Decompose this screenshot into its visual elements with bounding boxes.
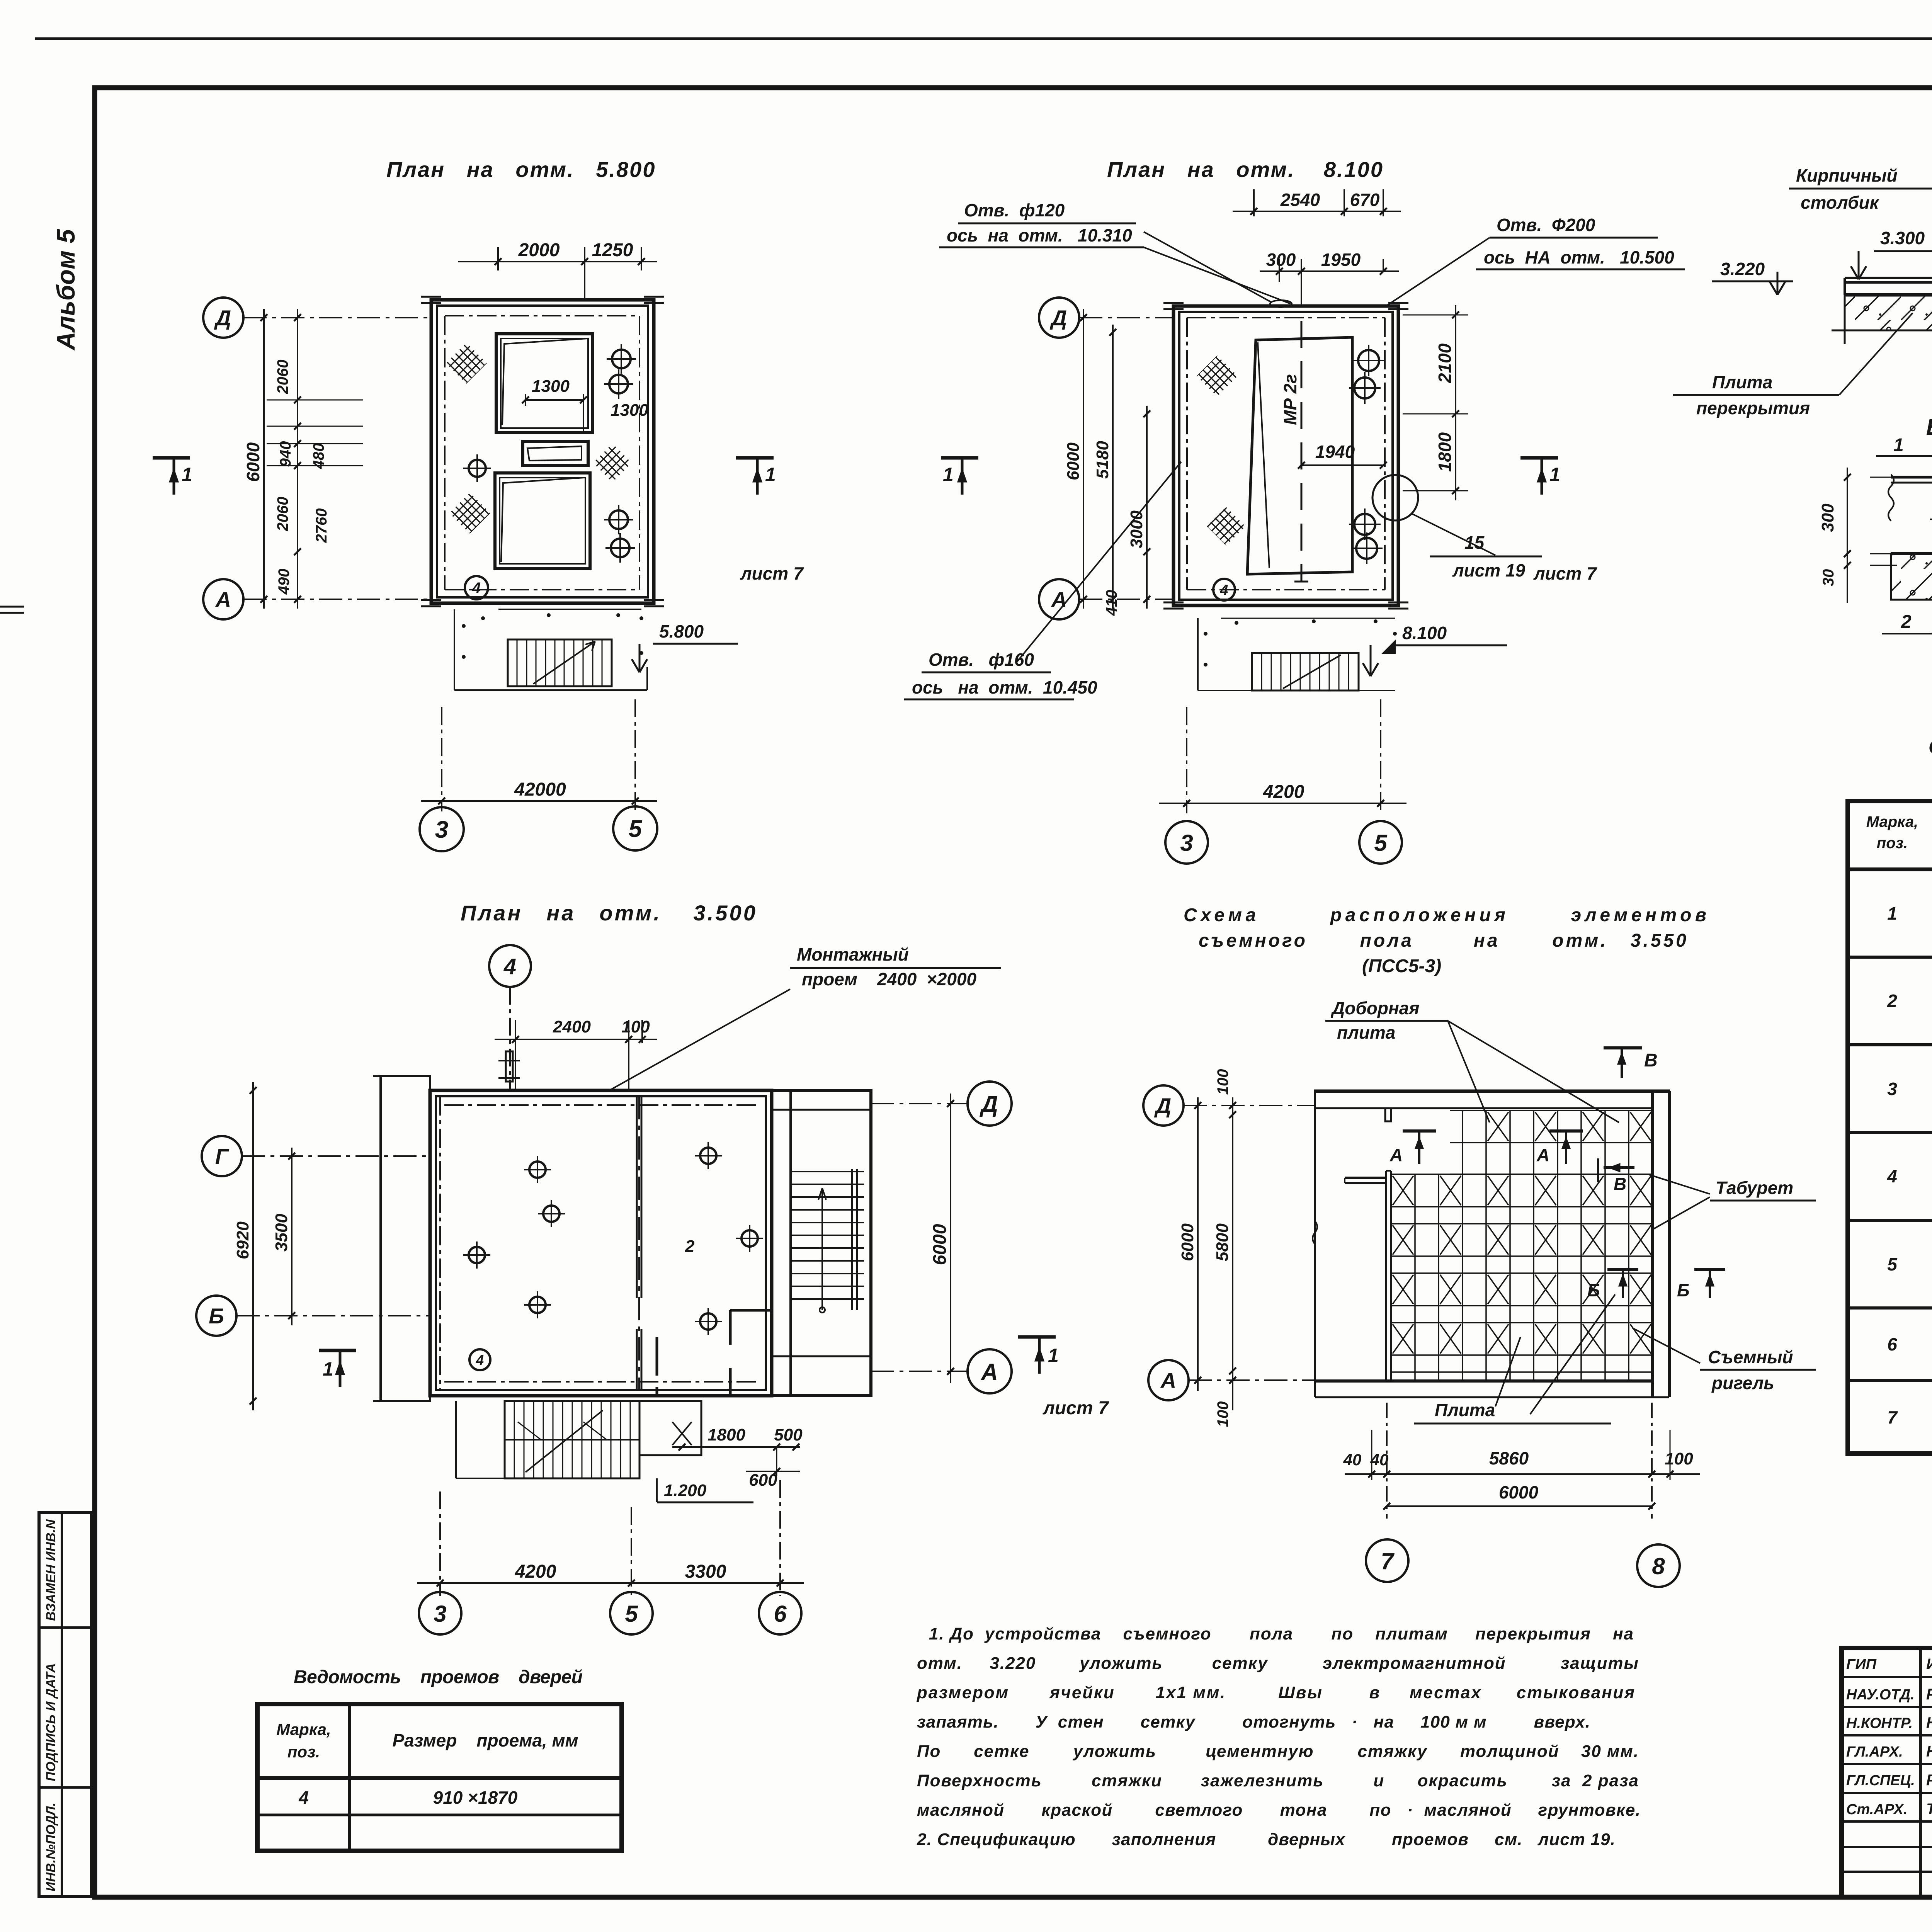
svg-text:3: 3	[1887, 1079, 1897, 1099]
plan 3500 left porch	[381, 1076, 430, 1401]
svg-text:1: 1	[1893, 435, 1904, 456]
svg-text:Б: Б	[1587, 1280, 1600, 1300]
svg-text:6920: 6920	[233, 1221, 252, 1259]
svg-text:ГЛ.СПЕЦ.: ГЛ.СПЕЦ.	[1846, 1772, 1915, 1789]
leader otv f120	[1144, 232, 1271, 302]
svg-text:1: 1	[182, 464, 192, 485]
svg-text:лист 7: лист 7	[740, 563, 804, 583]
slab BB	[1891, 554, 1932, 600]
schema right wall	[1651, 1091, 1654, 1397]
svg-text:ось на отм. 10.310: ось на отм. 10.310	[947, 225, 1132, 245]
svg-text:1. До устройства съемного: 1. До устройства съемного пола по плитам…	[929, 1624, 1633, 1643]
svg-text:6000: 6000	[1499, 1482, 1539, 1502]
schema grid	[1390, 1174, 1392, 1381]
axis bubble 5 plan5800	[613, 806, 657, 850]
svg-text:6000: 6000	[243, 442, 263, 482]
svg-text:6000: 6000	[1178, 1223, 1197, 1261]
svg-text:5.800: 5.800	[659, 621, 704, 641]
svg-text:2: 2	[1887, 991, 1897, 1011]
plan 5.800 outer wall	[431, 300, 654, 603]
plan 3500 right annex	[772, 1090, 871, 1396]
svg-text:ГИП: ГИП	[1846, 1656, 1877, 1673]
schema break mark	[1313, 1221, 1317, 1244]
svg-text:Табурет: Табурет	[1716, 1178, 1793, 1198]
dim 2400/100 plan3500	[515, 1020, 516, 1090]
svg-text:500: 500	[774, 1425, 803, 1444]
detail circle 15	[1372, 475, 1418, 520]
svg-text:Кирпичный: Кирпичный	[1796, 165, 1898, 185]
svg-text:2400: 2400	[553, 1017, 591, 1036]
svg-text:РАШЕВСКИЙ: РАШЕВСКИЙ	[1926, 1770, 1932, 1789]
svg-text:Д: Д	[979, 1091, 998, 1117]
svg-text:1800: 1800	[707, 1425, 745, 1444]
plan 5.800 axis dash-dot lines	[445, 315, 639, 316]
svg-text:3: 3	[434, 1601, 446, 1627]
axis bubble 5 plan3500	[610, 1592, 653, 1634]
svg-text:5860: 5860	[1489, 1448, 1529, 1468]
svg-text:Спецификация к схем: Спецификация к схеме расположения	[1929, 736, 1932, 758]
plan 8100 axis dashdot	[1187, 317, 1385, 318]
svg-text:7: 7	[1381, 1548, 1395, 1574]
svg-text:410: 410	[1103, 590, 1120, 616]
svg-text:А: А	[1389, 1145, 1403, 1165]
svg-text:670: 670	[1350, 190, 1380, 210]
svg-text:100: 100	[1214, 1069, 1231, 1095]
axis bubble 3 plan8100	[1165, 821, 1208, 864]
svg-text:1.200: 1.200	[664, 1481, 707, 1500]
svg-text:40: 40	[1343, 1451, 1362, 1469]
schema top pier	[1385, 1108, 1391, 1121]
svg-text:6: 6	[1887, 1334, 1897, 1354]
svg-text:План на отм. 3.500: План на отм. 3.500	[461, 901, 755, 925]
svg-text:ось на отм. 10.450: ось на отм. 10.450	[912, 677, 1097, 697]
fold marks left edge	[0, 606, 24, 608]
svg-text:Поверхность стяжки: Поверхность стяжки зажелезнить и окрасит…	[917, 1771, 1638, 1790]
section marker 1 right of plan5800	[736, 456, 774, 460]
svg-text:Б: Б	[1677, 1280, 1690, 1300]
vent symbols plan 5.800	[612, 350, 631, 368]
svg-text:1: 1	[765, 464, 776, 485]
svg-text:4200: 4200	[515, 1561, 556, 1582]
svg-text:Доборная: Доборная	[1330, 998, 1419, 1018]
svg-text:1950: 1950	[1321, 250, 1361, 270]
svg-text:План на отм. 5.800: План на отм. 5.800	[386, 157, 656, 182]
section marker A schema left	[1403, 1129, 1436, 1133]
plan3500 axis dashdot	[444, 1104, 757, 1106]
svg-text:План на отм. 8.100: План на отм. 8.100	[1107, 157, 1384, 182]
vertical dim 6000 plan5800	[263, 309, 265, 609]
schema X plates	[1393, 1176, 1413, 1205]
axis bubble 4 top plan3500	[489, 945, 531, 987]
svg-text:480: 480	[310, 443, 327, 469]
svg-text:ИВАНОВА: ИВАНОВА	[1926, 1656, 1932, 1673]
svg-text:Ведомость проемов дверей: Ведомость проемов дверей	[294, 1667, 583, 1687]
svg-text:1300: 1300	[532, 377, 570, 396]
section marker 1 left of plan5800	[153, 456, 190, 460]
svg-text:размером ячейки 1x: размером ячейки 1x1 мм. Швы в местах сты…	[917, 1683, 1634, 1702]
axis bubble 4 in plan 5800	[465, 576, 488, 599]
svg-text:1250: 1250	[592, 240, 633, 260]
svg-text:4: 4	[503, 954, 516, 979]
schema left dims	[1197, 1097, 1199, 1391]
plan 3500 post symbols	[529, 1162, 546, 1178]
svg-text:Д: Д	[1154, 1094, 1171, 1118]
svg-text:лист 7: лист 7	[1043, 1398, 1109, 1418]
svg-text:8: 8	[1652, 1553, 1665, 1579]
crane opening MP2g	[1247, 337, 1352, 574]
axis bubble 5 plan8100	[1359, 821, 1402, 864]
svg-text:1: 1	[1048, 1345, 1059, 1366]
svg-text:В: В	[1644, 1050, 1658, 1071]
svg-text:4: 4	[1219, 582, 1228, 599]
svg-text:3: 3	[1180, 830, 1193, 856]
svg-text:ГЛ.АРХ.: ГЛ.АРХ.	[1846, 1744, 1903, 1760]
equipment upper rect	[496, 334, 593, 433]
svg-text:А: А	[980, 1359, 998, 1385]
svg-text:2000: 2000	[518, 240, 560, 260]
stair below plan 5800	[454, 609, 455, 690]
schema axis A line	[1189, 1379, 1314, 1381]
vertical dim chain plan5800	[297, 309, 298, 609]
svg-text:перекрытия: перекрытия	[1696, 398, 1810, 418]
svg-text:масляной краской: масляной краской светлого тона по · масл…	[917, 1801, 1640, 1820]
svg-text:4: 4	[1887, 1166, 1897, 1186]
svg-text:ВЗАМЕН ИНВ.N: ВЗАМЕН ИНВ.N	[44, 1519, 58, 1621]
svg-text:5: 5	[629, 816, 643, 842]
svg-text:600: 600	[749, 1471, 777, 1490]
svg-text:Б-Б: Б-Б	[1926, 415, 1932, 440]
svg-text:4: 4	[476, 1352, 484, 1368]
schema axis bubbles	[1143, 1085, 1184, 1126]
left dims 6920 3500	[252, 1082, 254, 1410]
section marker right of plan8100	[1520, 456, 1558, 460]
svg-text:РЫБКИНА: РЫБКИНА	[1926, 1686, 1932, 1703]
axis bubbles plan3500 right	[968, 1082, 1012, 1126]
title block frame	[1842, 1648, 1932, 1897]
axis bubble 7 schema	[1366, 1539, 1408, 1582]
dim 2540/670 top plan 8100	[1253, 189, 1255, 216]
dim 1300 inner	[526, 399, 583, 401]
leader otv f160	[1016, 462, 1181, 663]
left dim chains plan8100	[1083, 309, 1084, 609]
svg-text:НОРМАНН: НОРМАНН	[1926, 1743, 1932, 1760]
pier detail plan3500	[506, 1051, 513, 1082]
schema bottom wall	[1315, 1379, 1653, 1383]
svg-text:Плита: Плита	[1712, 372, 1772, 392]
svg-text:Марка,: Марка,	[276, 1720, 331, 1738]
svg-text:100: 100	[1214, 1401, 1231, 1427]
axis lines to plan 5800	[243, 317, 431, 318]
axis bubble 8 schema	[1637, 1544, 1680, 1587]
svg-text:940: 940	[277, 441, 294, 467]
svg-text:2760: 2760	[313, 509, 330, 543]
svg-text:1: 1	[323, 1358, 333, 1380]
svg-text:8.100: 8.100	[1402, 623, 1447, 643]
svg-text:(ПСС5-3): (ПСС5-3)	[1362, 956, 1441, 976]
schema top wall	[1314, 1090, 1670, 1093]
svg-text:Б: Б	[209, 1304, 224, 1328]
svg-text:3.220: 3.220	[1720, 259, 1765, 279]
axis bubble D plan8100	[1039, 298, 1079, 338]
svg-text:Отв. Ф200: Отв. Ф200	[1497, 215, 1595, 235]
svg-text:Д: Д	[1050, 306, 1067, 330]
svg-text:2. Спецификацию заполнен: 2. Спецификацию заполнения дверных проем…	[917, 1830, 1615, 1849]
section mark V top	[1604, 1046, 1642, 1049]
svg-text:300: 300	[1266, 250, 1296, 270]
svg-text:300: 300	[1818, 503, 1837, 532]
svg-text:2: 2	[1901, 612, 1912, 632]
dim 4200 plan8100	[1186, 707, 1187, 813]
hatch squares plan 8100	[1197, 355, 1238, 396]
section marker V schema inner	[1597, 1158, 1599, 1182]
svg-text:910 ×1870: 910 ×1870	[433, 1787, 518, 1808]
right dims 2100 1800	[1403, 315, 1468, 316]
svg-text:6000: 6000	[930, 1224, 950, 1265]
slab bottom ext	[1832, 330, 1845, 332]
svg-text:Ст.АРХ.: Ст.АРХ.	[1846, 1801, 1908, 1818]
svg-text:5: 5	[1887, 1254, 1898, 1274]
svg-text:ПОДПИСЬ И ДАТА: ПОДПИСЬ И ДАТА	[44, 1663, 58, 1781]
axis bubble 4 in plan8100	[1213, 579, 1235, 600]
plan 5.800 top dimension 2000/1250	[497, 247, 499, 270]
axis bubble 4 small plan3500	[469, 1349, 490, 1370]
svg-text:3500: 3500	[272, 1214, 291, 1252]
svg-text:Альбом 5: Альбом 5	[51, 229, 80, 351]
dim 42000 bottom plan 5800	[441, 707, 442, 811]
svg-text:Марка,: Марка,	[1866, 813, 1918, 830]
tambour below annex	[639, 1401, 701, 1455]
small duct rect	[523, 441, 588, 466]
svg-text:лист 7: лист 7	[1533, 563, 1597, 583]
svg-text:15: 15	[1464, 532, 1485, 553]
svg-text:1: 1	[943, 464, 954, 485]
svg-text:3: 3	[435, 816, 448, 843]
svg-text:5: 5	[625, 1601, 638, 1627]
svg-text:5800: 5800	[1213, 1223, 1232, 1261]
signature columns	[1919, 1648, 1922, 1897]
frame top double line	[95, 86, 1932, 89]
svg-text:5: 5	[1374, 830, 1388, 856]
axis bubble 3 plan3500	[419, 1592, 461, 1634]
annex stair treads	[791, 1171, 864, 1172]
schema bottom dims	[1386, 1403, 1388, 1519]
svg-text:А: А	[1160, 1368, 1176, 1393]
svg-text:НАУ.ОТД.: НАУ.ОТД.	[1846, 1687, 1915, 1703]
dim 4200 3300 plan3500	[439, 1492, 441, 1596]
svg-text:Отв. ф120: Отв. ф120	[964, 200, 1065, 220]
plan 8100 corner ticks	[1163, 302, 1184, 304]
svg-text:1: 1	[1549, 464, 1560, 485]
leader otv f200	[1387, 238, 1490, 305]
svg-text:столбик: столбик	[1801, 192, 1880, 213]
axis bubble A plan8100	[1039, 579, 1079, 619]
svg-text:Н.КОНТР.: Н.КОНТР.	[1846, 1715, 1913, 1731]
svg-text:1940: 1940	[1315, 442, 1355, 462]
axis bubble 3 plan5800	[420, 807, 464, 851]
svg-text:2540: 2540	[1280, 190, 1320, 210]
svg-text:30: 30	[1820, 569, 1837, 587]
svg-text:2: 2	[685, 1237, 695, 1256]
svg-text:2100: 2100	[1435, 343, 1455, 383]
plan 3500 outer walls	[430, 1090, 772, 1396]
svg-text:3300: 3300	[685, 1561, 726, 1582]
svg-text:6000: 6000	[1064, 442, 1083, 480]
svg-text:ТУСОВА: ТУСОВА	[1926, 1801, 1932, 1818]
svg-text:4200: 4200	[1263, 782, 1304, 802]
leader montazhny	[609, 989, 790, 1090]
axis bubble A plan5800	[203, 579, 243, 619]
section marker 1 plan3500 left	[319, 1349, 356, 1352]
svg-text:ось НА отм. 10.500: ось НА отм. 10.500	[1484, 247, 1674, 267]
svg-text:Д: Д	[214, 306, 231, 330]
schema left boundary	[1314, 1091, 1316, 1397]
center dashed line plan8100	[1301, 321, 1303, 582]
dim 300/1950 plan8100	[1279, 259, 1280, 282]
schema axis D line	[1184, 1105, 1314, 1106]
svg-text:Монтажный: Монтажный	[797, 944, 909, 964]
svg-text:7: 7	[1887, 1407, 1898, 1427]
axis bubble D plan5800	[203, 298, 243, 338]
svg-text:100: 100	[621, 1017, 650, 1036]
svg-text:проем 2400 ×2000: проем 2400 ×2000	[802, 969, 977, 989]
svg-text:2060: 2060	[274, 360, 291, 395]
stair below plan8100	[1197, 618, 1199, 690]
svg-text:490: 490	[276, 569, 293, 595]
svg-text:ИНВ.№ПОДЛ.: ИНВ.№ПОДЛ.	[44, 1803, 58, 1891]
plan 5.800 corner ticks	[421, 296, 441, 298]
svg-text:Г: Г	[215, 1144, 230, 1168]
svg-text:В: В	[1614, 1174, 1626, 1194]
schema partition	[1385, 1171, 1387, 1381]
signature rows	[1842, 1676, 1932, 1678]
svg-text:ригель: ригель	[1711, 1373, 1774, 1393]
leaders dobornaya	[1448, 1021, 1490, 1122]
svg-text:100: 100	[1665, 1449, 1693, 1468]
svg-text:40: 40	[1370, 1451, 1389, 1469]
equipment lower rect	[495, 473, 590, 568]
svg-text:2060: 2060	[274, 497, 291, 532]
svg-text:Съемный: Съемный	[1708, 1347, 1793, 1367]
section marker 1 plan3500 right	[1018, 1335, 1056, 1339]
section marker A schema right	[1549, 1129, 1583, 1133]
bottom dims plan3500	[672, 1446, 800, 1448]
hatch squares plan 5.800	[446, 343, 487, 384]
slab band section A-A	[1845, 295, 1932, 330]
bottom stair plan3500	[455, 1401, 457, 1478]
svg-text:запаять. У стен с: запаять. У стен сетку отогнуть · на 100 …	[917, 1713, 1590, 1731]
svg-text:4: 4	[472, 580, 481, 597]
svg-text:Плита: Плита	[1435, 1400, 1495, 1420]
paper top edge line	[35, 37, 1932, 40]
plan 3500 partition	[636, 1096, 638, 1298]
svg-text:3.300: 3.300	[1880, 228, 1925, 248]
plate BB	[1891, 476, 1932, 479]
door table frame	[257, 1704, 622, 1851]
spec table frame	[1848, 801, 1932, 1454]
svg-text:А: А	[215, 587, 231, 612]
axis bubble 6 plan3500	[759, 1592, 801, 1634]
svg-text:НОРМАНН: НОРМАНН	[1926, 1714, 1932, 1731]
schema wall stub	[1345, 1177, 1386, 1179]
vent circles plan 8100	[1358, 350, 1379, 371]
svg-text:1: 1	[1887, 903, 1897, 923]
section marker 1 left of plan8100	[941, 456, 978, 460]
svg-text:1800: 1800	[1435, 432, 1455, 472]
svg-text:поз.: поз.	[1877, 835, 1908, 852]
svg-text:42000: 42000	[514, 779, 566, 800]
plan 3500 inner door walls	[730, 1310, 772, 1396]
svg-text:5180: 5180	[1093, 441, 1112, 479]
svg-text:А: А	[1536, 1145, 1549, 1165]
svg-text:плита: плита	[1337, 1022, 1395, 1043]
svg-text:А: А	[1051, 587, 1067, 612]
svg-text:поз.: поз.	[287, 1743, 320, 1761]
svg-text:1300: 1300	[611, 401, 648, 420]
svg-text:4: 4	[298, 1787, 309, 1808]
section marker B schema outer	[1694, 1268, 1725, 1271]
left flat plate A-A	[1845, 277, 1932, 279]
right dim 6000 plan3500	[950, 1094, 951, 1383]
dim 1940 plan8100	[1301, 464, 1383, 466]
axis bubbles plan3500 left	[202, 1136, 242, 1176]
svg-text:6: 6	[774, 1601, 787, 1627]
svg-text:МР 2г: МР 2г	[1280, 374, 1300, 425]
left margin stamp table	[39, 1513, 92, 1896]
svg-text:лист 19: лист 19	[1452, 560, 1526, 580]
plan 8.100 outer wall	[1173, 306, 1398, 605]
svg-text:Размер проема, мм: Размер проема, мм	[392, 1730, 578, 1750]
svg-text:По сетке уложить: По сетке уложить цементную стяжку толщин…	[917, 1742, 1638, 1761]
section marker B schema inner	[1607, 1268, 1638, 1271]
dims 300 30 BB	[1870, 477, 1897, 478]
